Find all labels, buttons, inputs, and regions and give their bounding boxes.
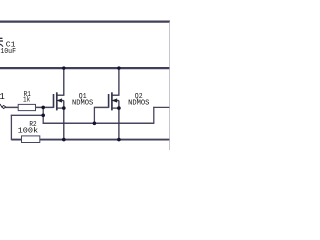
svg-text:NDMOS: NDMOS (128, 99, 149, 107)
wire top supply rail (0, 21, 170, 23)
svg-text:NDMOS: NDMOS (72, 99, 93, 107)
wire port to Q1 gate row (6, 106, 54, 108)
transistor Q2 (109, 68, 120, 140)
wire gate node vertical x=43.2 (42, 107, 44, 124)
svg-text:1: 1 (0, 92, 5, 102)
node R1 output junction (41, 106, 45, 110)
node Q2 gate on mid wire (93, 122, 97, 126)
wire Q2 gate drop (93, 107, 95, 124)
capacitor C1 plates (cut off at left edge) (0, 37, 3, 39)
wire R2 left vertical (10, 115, 12, 140)
wire faint right-edge vertical (half-clipped at crop) (169, 22, 171, 151)
node Q1 drain on rail2 (62, 66, 65, 69)
wire right edge exit (153, 106, 170, 108)
resistor R1 (18, 104, 35, 110)
node R2 branch junction (41, 114, 45, 118)
node Q1 source on bottom rail (62, 138, 66, 142)
wire bottom source rail (11, 139, 170, 141)
wire second supply rail (0, 67, 170, 69)
svg-text:100k: 100k (18, 127, 39, 135)
wire gate branch horizontal y=115.3 (11, 114, 43, 116)
wire Q2 gate lead (94, 106, 108, 108)
wire right edge vertical (153, 107, 155, 124)
node Q2 source-bulk junction (117, 106, 121, 110)
node Q2 source on bottom rail (117, 138, 121, 142)
wire mid horizontal to Q2 gate (43, 122, 154, 124)
port input diamond (0, 104, 2, 107)
transistor Q1 (54, 68, 65, 140)
node Q1 source-bulk junction (62, 106, 66, 110)
svg-text:1k: 1k (23, 97, 30, 105)
node Q2 drain on rail2 (117, 66, 120, 69)
resistor R2 (22, 136, 40, 143)
svg-text:10uF: 10uF (0, 48, 16, 56)
